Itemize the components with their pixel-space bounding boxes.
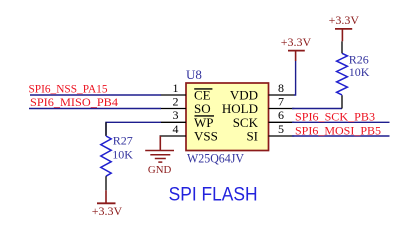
pin 4 <box>160 135 187 137</box>
pin name WP overline <box>195 115 215 117</box>
svg-text:8: 8 <box>278 81 284 95</box>
svg-text:+3.3V: +3.3V <box>329 13 360 27</box>
power +3.3V below R27 <box>92 190 123 218</box>
svg-text:10K: 10K <box>349 65 370 79</box>
svg-text:6: 6 <box>278 108 284 122</box>
svg-text:10K: 10K <box>112 148 133 162</box>
pin 2 <box>161 108 187 110</box>
svg-text:1: 1 <box>173 81 179 95</box>
svg-text:SPI FLASH: SPI FLASH <box>169 184 258 206</box>
svg-text:SPI6_MISO_PB4: SPI6_MISO_PB4 <box>30 95 118 109</box>
svg-text:R27: R27 <box>113 134 133 148</box>
svg-text:7: 7 <box>278 94 284 108</box>
power +3.3V at pin 8 <box>281 35 312 61</box>
wire R27 top to pin 3 <box>106 122 161 135</box>
pin 6 <box>269 121 295 123</box>
wire pin 8 to +3.3V <box>294 61 296 95</box>
power +3.3V above R26 <box>329 13 360 41</box>
resistor R26 <box>337 41 348 108</box>
svg-text:HOLD: HOLD <box>222 101 258 116</box>
svg-text:W25Q64JV: W25Q64JV <box>187 151 244 165</box>
wire net SPI6_MISO_PB4 to pin 2 <box>29 108 161 110</box>
pin 1 <box>161 94 187 96</box>
svg-text:4: 4 <box>173 122 179 136</box>
wire net SPI6_SCK_PB3 from pin 6 <box>292 121 390 123</box>
pin 8 <box>269 94 295 96</box>
pin 7 <box>269 108 295 110</box>
svg-text:5: 5 <box>278 122 284 136</box>
resistor R27 <box>101 122 111 190</box>
pin name CE overline <box>194 88 212 90</box>
svg-text:SPI6_NSS_PA15: SPI6_NSS_PA15 <box>29 82 108 96</box>
svg-text:3: 3 <box>173 108 179 122</box>
svg-text:SI: SI <box>246 129 258 144</box>
wire net SPI6_NSS_PA15 to pin 1 <box>30 94 161 96</box>
svg-text:SPI6_MOSI_PB5: SPI6_MOSI_PB5 <box>295 123 381 137</box>
svg-text:SO: SO <box>194 101 211 116</box>
svg-text:2: 2 <box>173 94 179 108</box>
svg-text:+3.3V: +3.3V <box>92 204 123 218</box>
IC U8 body <box>186 83 269 151</box>
pin 3 <box>161 121 187 123</box>
ground GND at pin 4 <box>145 136 174 162</box>
svg-text:+3.3V: +3.3V <box>281 35 312 49</box>
wire net SPI6_MOSI_PB5 from pin 5 <box>292 135 390 137</box>
svg-text:GND: GND <box>148 164 172 176</box>
wire pin 7 to R26 <box>292 108 342 110</box>
svg-text:SPI6_SCK_PB3: SPI6_SCK_PB3 <box>295 110 375 124</box>
pin 5 <box>269 135 295 137</box>
svg-text:VSS: VSS <box>194 129 218 144</box>
svg-text:U8: U8 <box>186 67 202 82</box>
